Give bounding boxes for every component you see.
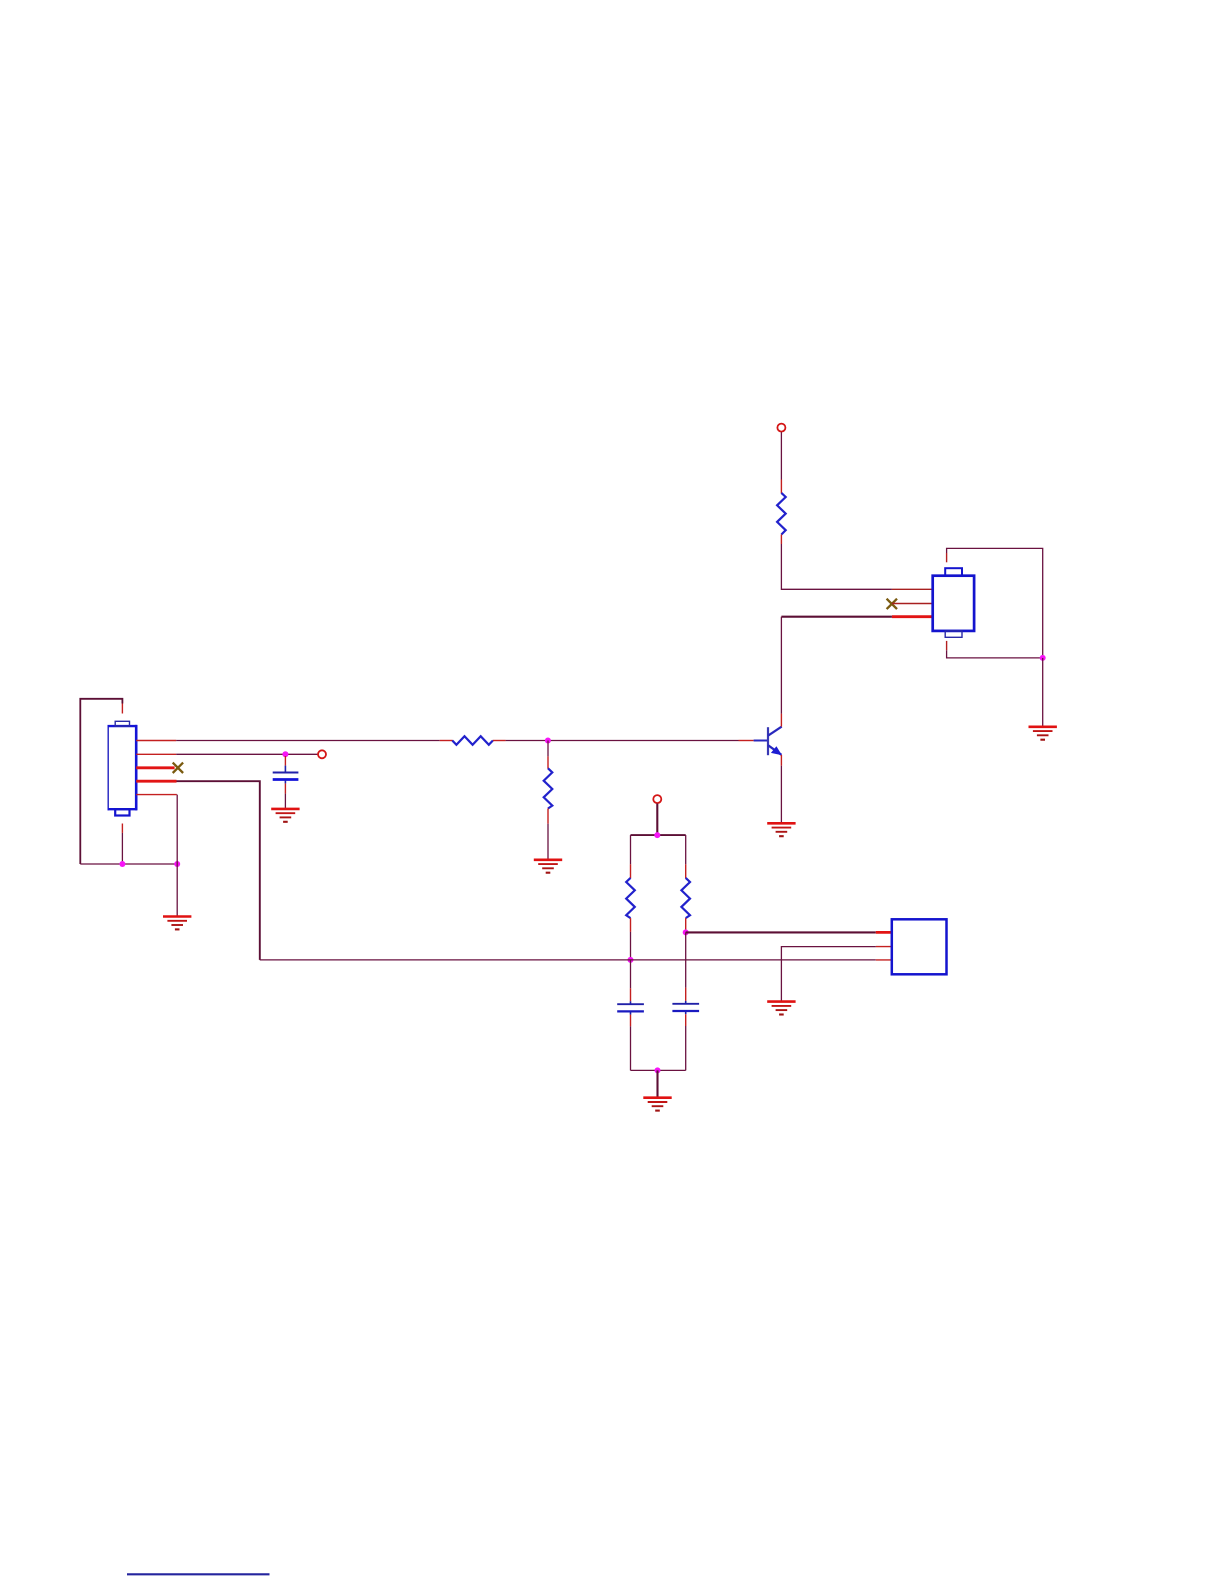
capacitor C3 plate 1 — [672, 1003, 699, 1005]
wire — [121, 833, 123, 864]
footer underline — [127, 1573, 270, 1575]
pin 5 of J1 — [136, 794, 177, 796]
resistor R2 pin stub left — [440, 740, 453, 742]
wire — [176, 795, 178, 864]
wire (emitter to ground) — [780, 766, 782, 823]
wire — [547, 741, 549, 757]
wire — [630, 1026, 632, 1070]
resistor R1 pin stub top — [780, 480, 782, 494]
terminal T2 — [318, 750, 326, 758]
wire — [1042, 658, 1044, 726]
resistor R5 — [681, 878, 690, 918]
junction — [655, 1067, 661, 1073]
IC U2 body — [892, 919, 947, 974]
wire — [630, 932, 632, 960]
transistor Q1 collector pin — [780, 714, 782, 727]
connector J1 top tab — [115, 721, 129, 726]
resistor R5 pin stub bottom — [685, 918, 687, 930]
junction — [683, 929, 689, 935]
pin 1 of J1 — [136, 740, 176, 742]
wire — [506, 740, 739, 742]
wire — [947, 548, 1043, 658]
ground (below R3) — [534, 860, 562, 873]
wire (thick, from pin 4) — [177, 781, 260, 960]
ground (emitter) — [767, 823, 795, 836]
wire (from pin 2 to terminal) — [176, 753, 318, 755]
terminal T3 — [653, 795, 661, 803]
resistor R3 pin stub bottom — [547, 809, 549, 824]
capacitor C2 pin stub top — [630, 988, 632, 1001]
capacitor C3 bottom lead — [685, 1012, 687, 1014]
transistor Q1 base bar — [767, 727, 769, 755]
junction — [119, 861, 125, 867]
transistor Q1 collector lead — [768, 727, 782, 736]
pin 2 of U1 — [892, 603, 933, 605]
ground (below J1) — [163, 917, 191, 930]
junction — [545, 738, 551, 744]
wire — [685, 1026, 687, 1070]
pin 2 of J1 — [136, 753, 176, 755]
ground (top right) — [1029, 727, 1057, 740]
capacitor C3 plate 2 — [672, 1010, 699, 1012]
resistor R2 — [452, 736, 493, 745]
resistor R2 pin stub right — [493, 740, 506, 742]
junction — [174, 861, 180, 867]
wire (top rail) — [631, 834, 686, 836]
pin 3 of J1 — [136, 766, 174, 769]
transistor Q1 base lead — [754, 740, 767, 742]
wire — [947, 650, 1043, 658]
capacitor C2 plate 1 — [617, 1003, 644, 1005]
pin 1 of U1 — [892, 588, 933, 590]
resonator U1 body — [933, 576, 974, 631]
wire (thick, to U2 pin 1) — [686, 931, 876, 933]
junction — [654, 832, 660, 838]
wire (long net from J1 pin 4 to U2 pin 3) — [260, 959, 876, 961]
capacitor C2 top lead — [630, 1001, 632, 1003]
wire — [547, 824, 549, 859]
wire — [176, 864, 178, 916]
wire (thick) — [656, 804, 658, 836]
wire — [780, 432, 782, 479]
wire — [685, 835, 687, 864]
capacitor C1 top lead — [284, 766, 286, 772]
junction — [628, 957, 634, 963]
capacitor C1 pin stub bottom — [284, 783, 286, 793]
capacitor C2 bottom lead — [630, 1012, 632, 1014]
pin 3 of U1 — [892, 615, 933, 618]
capacitor C3 pin stub top — [685, 988, 687, 1001]
pin 3 of U2 — [876, 959, 892, 961]
resistor R5 pin stub top — [685, 864, 687, 878]
capacitor C1 plate 2 — [273, 778, 299, 781]
resonator U1 bottom tab — [945, 631, 962, 637]
capacitor C2 pin stub bottom — [630, 1015, 632, 1027]
terminal T1 (power input, top right) — [777, 424, 785, 432]
pin 2 of U2 — [876, 946, 892, 948]
ground (bottom) — [643, 1098, 671, 1111]
resistor R1 — [777, 493, 786, 535]
capacitor C2 plate 2 — [617, 1010, 644, 1012]
wire — [80, 699, 122, 864]
capacitor C3 top lead — [685, 1001, 687, 1003]
wire (bottom rail) — [631, 1069, 686, 1071]
pin 4 of U1 (top) — [946, 553, 948, 562]
connector J1 bottom tab — [115, 809, 129, 815]
capacitor C1 plate 1 — [273, 772, 299, 774]
capacitor C1 bottom lead — [284, 780, 286, 783]
connector J1 body — [108, 725, 137, 811]
pin 6 of J1 (top) — [121, 704, 123, 714]
pin 4 of J1 — [136, 780, 176, 783]
capacitor C3 pin stub bottom — [685, 1014, 687, 1026]
wire (thick) — [656, 1070, 658, 1096]
pin 7 of J1 (bottom) — [121, 824, 123, 833]
wire (collector up to U1 pin3 net) — [780, 617, 782, 714]
transistor Q1 base pin — [739, 740, 754, 742]
ground (below C1) — [271, 809, 299, 822]
transistor Q1 emitter pin — [780, 755, 782, 766]
wire (base net, from pin 1 of J1) — [176, 740, 440, 742]
resonator U1 top tab — [945, 568, 962, 576]
wire — [781, 544, 892, 589]
pin 1 of U2 — [876, 931, 892, 934]
no-connect X on pin 3 of J1 — [173, 763, 183, 773]
resistor R4 pin stub top — [630, 864, 632, 878]
wire — [630, 960, 632, 988]
transistor Q1 emitter arrow — [771, 746, 782, 755]
wire — [284, 794, 286, 808]
resistor R3 pin stub top — [547, 756, 549, 768]
capacitor C1 pin stub top — [284, 756, 286, 766]
wire — [80, 863, 177, 865]
ground (below U2 pin 2 net) — [767, 1002, 795, 1015]
wire (from U2 pin 2) — [781, 947, 875, 1001]
resistor R1 pin stub bottom — [780, 535, 782, 545]
transistor Q1 emitter lead — [768, 745, 781, 755]
no-connect X on pin 2 of U1 — [887, 599, 897, 609]
junction — [282, 751, 288, 757]
wire — [630, 835, 632, 864]
junction — [1040, 655, 1046, 661]
resistor R4 pin stub bottom — [630, 918, 632, 932]
wire (thick) — [781, 616, 892, 618]
resistor R3 — [544, 768, 553, 808]
pin 5 of U1 (bottom) — [946, 641, 948, 650]
wire — [685, 932, 687, 987]
resistor R4 — [626, 878, 635, 918]
